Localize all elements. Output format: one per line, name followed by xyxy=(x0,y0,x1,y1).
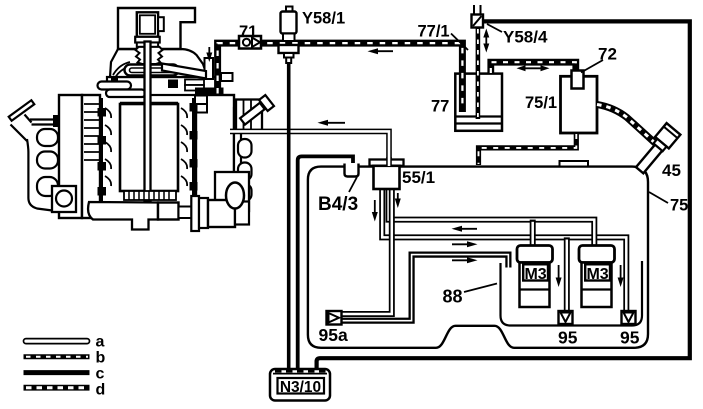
engine ignition coil block xyxy=(236,100,262,131)
Y58/4 vent stub xyxy=(474,5,481,15)
sensor B4/3 notch xyxy=(345,164,359,177)
vent line engine to canister (type b dashed) xyxy=(218,43,463,112)
svg-text:M3: M3 xyxy=(586,266,608,283)
engine bell housing bars xyxy=(191,196,199,231)
check valve 95 left xyxy=(559,311,573,324)
pointer line Y58/4 xyxy=(487,24,502,32)
svg-text:88: 88 xyxy=(443,287,463,307)
engine crank pulley left xyxy=(52,186,76,212)
svg-text:Y58/4: Y58/4 xyxy=(503,28,548,47)
engine central rod xyxy=(145,42,151,202)
legend line b xyxy=(24,354,90,359)
svg-text:B4/3: B4/3 xyxy=(318,194,358,215)
engine air inlet duct xyxy=(137,12,158,37)
solenoid valve Y58/1 xyxy=(286,7,293,13)
arrow right under run2 xyxy=(452,241,478,247)
engine head bolts left column xyxy=(100,98,103,215)
engine head joint black bar xyxy=(195,88,224,96)
arrow down right of 55/1 bundle xyxy=(395,193,401,208)
pointer line 75 xyxy=(649,192,668,203)
pressure reservoir 75/1 xyxy=(561,76,598,133)
svg-text:d: d xyxy=(96,382,106,399)
fuel tank 75 outline xyxy=(308,167,648,348)
svg-text:95a: 95a xyxy=(319,325,348,345)
engine heater loop pipe xyxy=(125,65,179,76)
engine intake plenum dome xyxy=(110,49,208,77)
engine block top-right step xyxy=(221,73,233,81)
svg-text:45: 45 xyxy=(662,161,681,180)
tank interior pipe run2 to 95 valves (hollow) xyxy=(382,189,626,312)
engine throttle linkage column xyxy=(205,58,214,79)
engine exhaust manifold loop 1 xyxy=(37,129,58,146)
engine right edge bumps xyxy=(238,139,252,158)
pointer line 72 xyxy=(581,60,603,73)
arrow right under run3 xyxy=(452,257,478,263)
engine transmission blocks xyxy=(208,200,235,227)
fuel feed pipe engine to 55/1 (hollow) xyxy=(230,131,389,161)
svg-text:c: c xyxy=(96,366,105,383)
line 75/1 bottom to tank (type b dashed) xyxy=(479,133,577,165)
legend line c xyxy=(24,370,90,375)
engine intake bellows xyxy=(136,47,163,64)
engine water pump oval xyxy=(226,183,244,209)
svg-text:71: 71 xyxy=(239,23,257,41)
engine right cover band xyxy=(234,108,241,207)
feed pipe crossing 55/1 flange xyxy=(386,157,392,166)
filler hose 75/1 to 45 (type d dashed) xyxy=(597,105,655,144)
pointer line 77/1 xyxy=(451,34,468,51)
check valve 71 xyxy=(239,36,261,49)
engine exhaust manifold loop 3 xyxy=(37,177,58,196)
svg-text:55/1: 55/1 xyxy=(402,168,435,187)
legend line d xyxy=(24,385,90,391)
engine head bolts right column xyxy=(192,98,195,210)
svg-text:95: 95 xyxy=(558,328,578,348)
wire Y58/1 to N3/10 xyxy=(287,63,291,369)
engine dome left curves xyxy=(113,62,130,77)
purge line canister to 75/1 (type b dashed) xyxy=(491,62,576,74)
arrow double vertical at Y58/4 xyxy=(483,29,489,53)
arrow left above fuel feed pipe xyxy=(318,120,346,126)
fuel filler neck 45 xyxy=(636,143,664,174)
engine oil pan with foot xyxy=(88,202,158,230)
engine valve squiggles left xyxy=(105,108,111,186)
vent valve Y58/4 xyxy=(472,15,484,28)
engine starter block xyxy=(158,203,179,220)
engine valve squiggles right xyxy=(181,108,187,186)
arrow left under run1 xyxy=(452,226,478,232)
engine intake runner right xyxy=(162,64,206,79)
outer border solid line from Y58/4 around right and bottom xyxy=(317,21,690,368)
svg-text:N3/10: N3/10 xyxy=(280,379,321,396)
svg-text:77: 77 xyxy=(431,98,449,116)
arrow left on vent line xyxy=(368,48,394,54)
engine air cleaner flange xyxy=(135,37,160,43)
engine block left band with fins xyxy=(82,95,100,218)
arrow double horizontal canister to 75/1 xyxy=(517,65,550,71)
engine exhaust junction blob xyxy=(53,115,63,127)
tank interior pipe run1 to pump inlets (hollow) xyxy=(389,189,595,246)
engine right gasket blocks xyxy=(195,96,207,105)
engine head gasket ladder xyxy=(185,80,204,86)
svg-text:77/1: 77/1 xyxy=(418,23,450,41)
tank interior descender pipe to 95a (hollow) xyxy=(342,189,392,314)
charcoal canister 77 xyxy=(455,74,502,131)
arrow down left of 55/1 bundle xyxy=(372,200,378,222)
svg-text:M3: M3 xyxy=(524,266,546,283)
engine cylinder liner xyxy=(120,104,178,191)
pointer line 88 xyxy=(464,284,497,293)
svg-text:72: 72 xyxy=(598,45,617,64)
swirl pot 88 outline xyxy=(501,261,643,326)
legend letters xyxy=(96,334,106,399)
engine exhaust manifold flange plate xyxy=(9,100,35,121)
engine right crankcase block xyxy=(196,95,234,210)
fuel pump M3 right xyxy=(579,246,615,263)
engine exhaust manifold outer wall xyxy=(27,139,56,211)
fuel pump M3 left xyxy=(517,246,553,263)
engine head black blob xyxy=(168,80,178,89)
svg-text:95: 95 xyxy=(620,328,640,348)
wire B4/3 to N3/10 (type c) xyxy=(298,156,353,369)
ENGINE GROUP xyxy=(9,8,274,231)
engine exhaust inlet tube from flange xyxy=(30,120,57,125)
engine air filter housing xyxy=(118,8,195,49)
pointer line B4/3 xyxy=(349,177,357,192)
legend line a xyxy=(24,339,90,344)
engine coolant stub pipes left xyxy=(98,82,132,90)
check valve 95a xyxy=(327,311,342,325)
svg-text:b: b xyxy=(96,350,106,367)
engine piston spline row xyxy=(124,191,176,200)
engine exhaust manifold loop 2 xyxy=(37,152,58,169)
engine mount band xyxy=(59,95,82,218)
arrow down at engine vent xyxy=(206,47,212,62)
engine exhaust inlet funnel xyxy=(11,115,32,142)
svg-text:a: a xyxy=(96,334,105,351)
valve unit 55/1 xyxy=(370,160,404,166)
check valve 95 right xyxy=(622,311,636,324)
port 72 xyxy=(572,71,584,89)
svg-text:75/1: 75/1 xyxy=(525,94,557,112)
tank top flange bump xyxy=(560,161,589,167)
Y58/4 line down into canister (type b dashed) xyxy=(476,28,481,120)
engine breather stub diagonal xyxy=(240,103,265,125)
engine water pump housing right xyxy=(215,172,249,211)
control unit N3/10 xyxy=(270,369,330,401)
svg-text:Y58/1: Y58/1 xyxy=(302,10,345,28)
svg-text:75: 75 xyxy=(670,197,688,215)
tank interior run3 pipe 95a to spout (hollow) xyxy=(342,255,509,321)
engine cylinder head band xyxy=(107,77,218,95)
arrow down right of pump M3 left xyxy=(556,265,562,287)
arrow down right of pump M3 right xyxy=(618,265,624,287)
